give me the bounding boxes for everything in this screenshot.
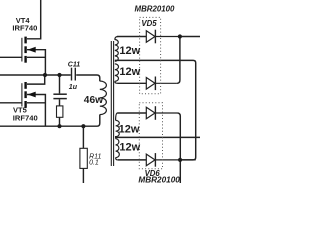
- svg-text:12w: 12w: [119, 45, 140, 57]
- svg-text:12w: 12w: [119, 123, 140, 135]
- svg-text:1u: 1u: [69, 84, 78, 91]
- svg-text:MBR20100: MBR20100: [135, 5, 176, 14]
- svg-text:0.1: 0.1: [89, 160, 99, 167]
- svg-text:46w: 46w: [84, 95, 103, 106]
- svg-text:VD5: VD5: [141, 19, 157, 28]
- svg-text:12w: 12w: [119, 66, 140, 78]
- svg-text:MBR20100: MBR20100: [138, 175, 180, 183]
- svg-text:12w: 12w: [119, 142, 140, 154]
- svg-text:C11: C11: [68, 62, 80, 69]
- svg-text:IRF740: IRF740: [12, 23, 37, 32]
- svg-text:IRF740: IRF740: [13, 114, 38, 123]
